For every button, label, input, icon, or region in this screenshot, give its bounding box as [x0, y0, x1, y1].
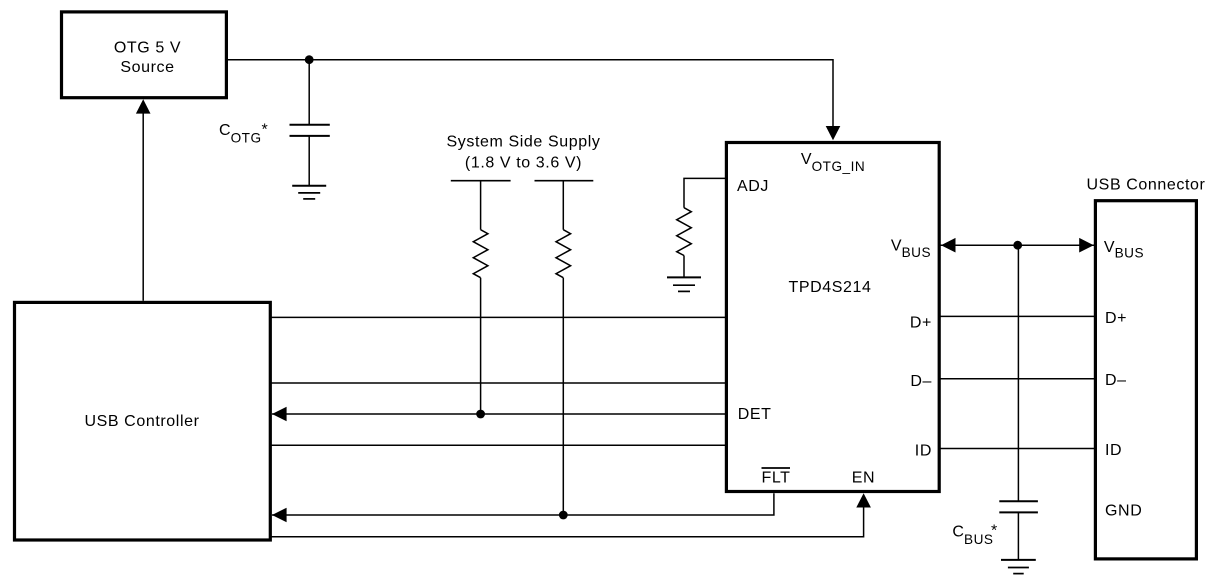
node junction R2/FLT	[559, 511, 568, 520]
arrowhead FLT into controller	[272, 508, 287, 523]
wire COTG top lead	[308, 60, 310, 125]
svg-text:BUS: BUS	[902, 245, 931, 260]
wire DET to controller	[272, 413, 726, 415]
wire CBUS bottom lead	[1017, 512, 1019, 560]
svg-text:D+: D+	[910, 315, 932, 332]
svg-text:D–: D–	[1105, 372, 1127, 389]
svg-text:*: *	[262, 122, 269, 139]
resistor R3 (ADJ to ground)	[677, 208, 692, 256]
svg-text:ID: ID	[1105, 442, 1122, 459]
wire rail2 to resistor R2	[562, 181, 564, 230]
wire D+ TPD to connector	[939, 315, 1095, 317]
supply rail bar 1	[451, 180, 511, 182]
wire controller to TPD line 2 (D-)	[270, 382, 726, 384]
svg-text:DET: DET	[738, 406, 772, 423]
svg-text:OTG 5 V: OTG 5 V	[114, 40, 181, 57]
pin label VOTG_IN	[801, 151, 865, 174]
wire controller to TPD line 1 (D+)	[270, 316, 726, 318]
wire rail1 to resistor R1	[480, 181, 482, 230]
svg-text:TPD4S214: TPD4S214	[788, 279, 871, 296]
wire EN from controller	[270, 506, 863, 537]
wire COTG bottom lead	[308, 136, 310, 186]
capacitor COTG	[290, 125, 330, 136]
svg-text:ADJ: ADJ	[737, 178, 769, 195]
wire CBUS top lead	[1017, 245, 1019, 501]
wire ID TPD to connector	[939, 448, 1095, 450]
ground for COTG	[292, 186, 326, 199]
svg-text:System Side Supply: System Side Supply	[447, 133, 601, 150]
svg-text:EN: EN	[852, 469, 875, 486]
wire OTG source output to VOTG_IN	[226, 60, 833, 126]
pin label VBUS (TPD)	[891, 238, 931, 261]
arrowhead VBUS toward connector	[1079, 238, 1094, 253]
wire ADJ pin stub	[684, 178, 726, 207]
arrowhead into OTG source	[136, 99, 151, 113]
pin label VBUS (connector)	[1104, 239, 1144, 261]
wire FLT to controller	[272, 493, 774, 515]
svg-text:V: V	[1104, 239, 1115, 256]
resistor R1 (pullup to DET)	[473, 230, 488, 278]
arrowhead DET into controller	[272, 407, 287, 422]
wire USB controller to OTG source (arrow up)	[142, 112, 144, 301]
TPD4S214 IC U1	[726, 143, 939, 492]
label System Side Supply	[447, 133, 601, 171]
arrowhead EN into TPD	[856, 493, 871, 507]
wire R3 to ground	[683, 256, 685, 278]
ground for R3	[667, 277, 701, 291]
resistor R2 (pullup to FLT)	[556, 230, 571, 278]
svg-text:FLT: FLT	[761, 469, 790, 486]
label CBUS*	[952, 522, 997, 546]
svg-text:OTG_IN: OTG_IN	[812, 159, 866, 174]
ground for CBUS	[1001, 560, 1036, 574]
wire controller to TPD line 4 (ID)	[270, 444, 726, 446]
svg-text:Source: Source	[120, 59, 174, 76]
svg-text:C: C	[952, 523, 964, 540]
svg-text:BUS: BUS	[964, 532, 993, 547]
node junction R1/DET	[476, 410, 485, 419]
label COTG*	[219, 122, 268, 146]
svg-text:(1.8 V to 3.6 V): (1.8 V to 3.6 V)	[465, 154, 582, 171]
capacitor CBUS	[999, 501, 1038, 512]
wire R2 to FLT line	[562, 278, 564, 515]
svg-text:D–: D–	[910, 373, 932, 390]
svg-text:GND: GND	[1105, 503, 1142, 520]
svg-text:ID: ID	[915, 443, 932, 460]
svg-text:V: V	[801, 151, 812, 168]
arrowhead into VOTG_IN pin	[826, 126, 841, 140]
supply rail bar 2	[535, 180, 594, 182]
wire VBUS TPD to connector	[939, 244, 1095, 246]
node junction at COTG tap	[305, 55, 314, 64]
USB Connector block J1	[1087, 176, 1206, 559]
svg-text:OTG: OTG	[231, 130, 262, 145]
svg-text:*: *	[991, 522, 998, 539]
node junction VBUS/CBUS	[1013, 241, 1022, 250]
svg-text:C: C	[219, 122, 231, 139]
wire R1 to DET line	[480, 278, 482, 414]
svg-text:V: V	[891, 238, 902, 255]
svg-text:D+: D+	[1105, 310, 1127, 327]
svg-text:BUS: BUS	[1115, 246, 1144, 261]
svg-text:USB Connector: USB Connector	[1087, 176, 1206, 193]
wire D- TPD to connector	[939, 378, 1095, 380]
arrowhead VBUS toward TPD	[941, 238, 956, 253]
pin label FLT with overline	[761, 468, 790, 486]
svg-text:USB Controller: USB Controller	[84, 413, 199, 430]
OTG 5 V Source block U2	[62, 12, 227, 98]
USB Controller block U3	[15, 302, 271, 540]
